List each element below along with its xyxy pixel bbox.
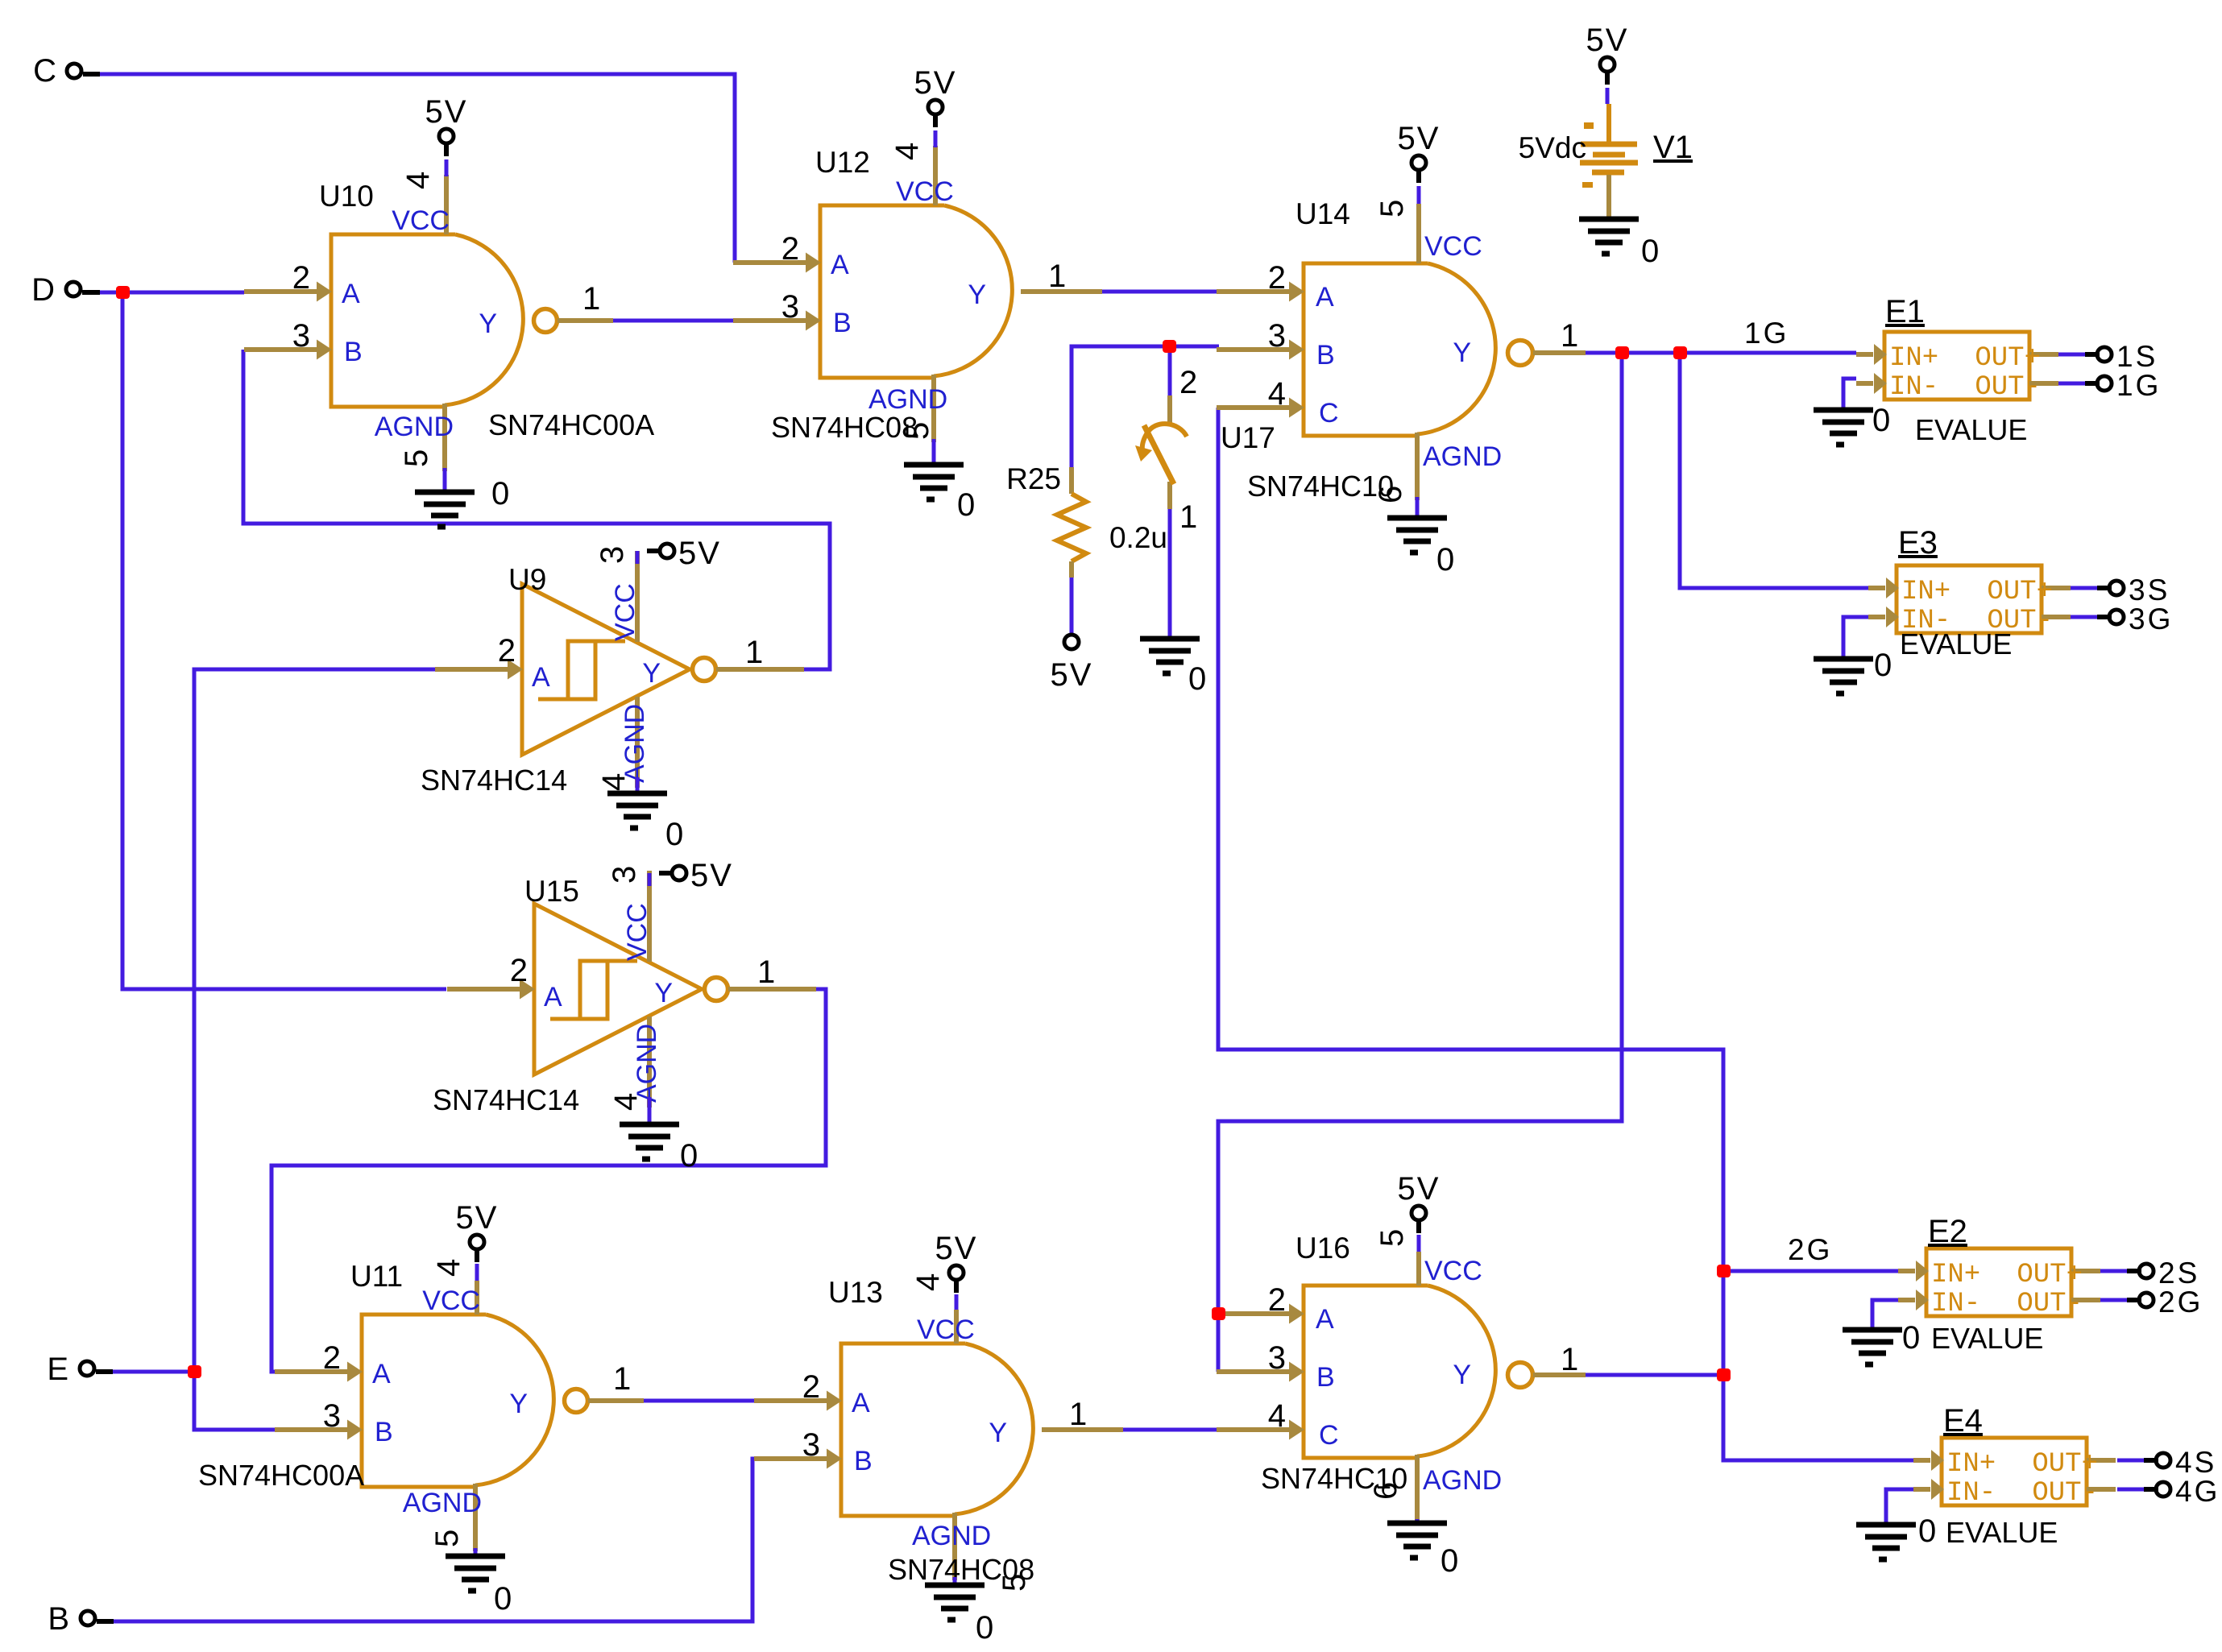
wire U16 Y / U14 pin C feedback bbox=[1218, 408, 1913, 1460]
svg-text:SN74HC08: SN74HC08 bbox=[888, 1553, 1034, 1586]
junction dot (net 2G) bbox=[1717, 1265, 1731, 1277]
svg-text:1: 1 bbox=[757, 954, 775, 990]
terminal 3S bbox=[2097, 573, 2170, 607]
svg-text:C: C bbox=[1319, 398, 1339, 429]
5V power terminal (U13 VCC) bbox=[935, 1231, 978, 1310]
svg-text:IN-: IN- bbox=[1946, 1478, 1996, 1509]
wire E1 OUT+ to 1S bbox=[2058, 353, 2085, 357]
5V power terminal (U16 VCC) bbox=[1398, 1171, 1441, 1252]
pin number 4 (U9.AGND) bbox=[596, 773, 632, 791]
svg-text:SN74HC14: SN74HC14 bbox=[433, 1083, 579, 1116]
svg-text:1: 1 bbox=[745, 635, 763, 670]
pin number 1 (U14.Y) bbox=[1561, 318, 1578, 354]
svg-text:SN74HC10: SN74HC10 bbox=[1261, 1462, 1407, 1495]
pin number 3 (U14.B) bbox=[1268, 318, 1286, 354]
5V power terminal (U14 VCC) bbox=[1398, 121, 1441, 204]
wire U15 Y to U11 pin A bbox=[272, 989, 826, 1372]
svg-text:1S: 1S bbox=[2116, 340, 2158, 373]
svg-text:0: 0 bbox=[1188, 661, 1206, 697]
svg-text:SN74HC14: SN74HC14 bbox=[421, 764, 567, 797]
wire E1 OUT- to 1G bbox=[2058, 382, 2085, 386]
svg-text:3: 3 bbox=[1268, 318, 1286, 354]
pin number 2 (U9.A) bbox=[498, 633, 516, 669]
pin number 2 (U14.A) bbox=[1268, 260, 1286, 296]
svg-text:OUT+: OUT+ bbox=[2032, 1449, 2098, 1480]
part value SN74HC10 (U16) bbox=[1261, 1462, 1407, 1495]
svg-text:1: 1 bbox=[1179, 499, 1197, 535]
battery V1 (5Vdc) bbox=[1580, 104, 1638, 219]
wire U14 Y to U16 pins A,B bbox=[1217, 353, 1622, 1372]
svg-text:IN+: IN+ bbox=[1901, 577, 1950, 607]
pin number 3 (U9.VCC) bbox=[595, 546, 630, 564]
pin number 5 (U12.AGND) bbox=[900, 422, 935, 440]
svg-text:IN+: IN+ bbox=[1889, 343, 1938, 374]
svg-text:1: 1 bbox=[1561, 1342, 1578, 1377]
wire E3 OUT+ to 3S bbox=[2071, 586, 2097, 590]
part value SN74HC14 (U15) bbox=[433, 1083, 579, 1116]
pin number 3 (U13.B) bbox=[802, 1427, 820, 1463]
wire E to junction bbox=[101, 1370, 194, 1374]
junction dot (U14.Y branch 1) bbox=[1615, 346, 1629, 359]
svg-text:A: A bbox=[544, 982, 562, 1012]
reference label U16 bbox=[1295, 1232, 1350, 1265]
part value SN74HC08 (U13) bbox=[888, 1553, 1034, 1586]
svg-text:U17: U17 bbox=[1221, 421, 1275, 454]
controlled source E2 (EVALUE) bbox=[1898, 1248, 2100, 1319]
svg-text:5V: 5V bbox=[456, 1200, 499, 1236]
svg-text:IN-: IN- bbox=[1931, 1289, 1980, 1319]
svg-text:5: 5 bbox=[1374, 1229, 1410, 1247]
wire E3 OUT- to 3G bbox=[2071, 615, 2097, 619]
pin number 2 (U16.A) bbox=[1268, 1282, 1286, 1318]
svg-text:AGND: AGND bbox=[912, 1521, 991, 1551]
ground 0 (E1 IN-) bbox=[1814, 403, 1890, 445]
svg-text:U14: U14 bbox=[1295, 197, 1350, 230]
pin number 1 (U12.Y) bbox=[1048, 259, 1066, 294]
svg-text:IN+: IN+ bbox=[1946, 1449, 1996, 1480]
switch U17 (tClose=0.2u) bbox=[1135, 395, 1187, 509]
pin number 1 (U13.Y) bbox=[1069, 1397, 1087, 1432]
wire R25 to 5V bbox=[1070, 578, 1074, 634]
pin number 1 (U9.Y) bbox=[745, 635, 763, 670]
junction dot (R25/switch/U14.B) bbox=[1163, 340, 1176, 353]
svg-text:VCC: VCC bbox=[610, 583, 640, 641]
svg-text:2G: 2G bbox=[1788, 1233, 1832, 1266]
svg-text:OUT+: OUT+ bbox=[1987, 577, 2053, 607]
svg-text:4S: 4S bbox=[2175, 1446, 2216, 1479]
svg-text:0: 0 bbox=[1874, 648, 1892, 683]
svg-text:C: C bbox=[1319, 1420, 1339, 1451]
wire E4 OUT- to 4G bbox=[2117, 1488, 2144, 1492]
ground 0 (U13 AGND) bbox=[925, 1577, 993, 1646]
svg-text:0: 0 bbox=[957, 487, 975, 523]
svg-text:5V: 5V bbox=[1586, 23, 1629, 58]
svg-text:2: 2 bbox=[323, 1340, 341, 1376]
svg-text:U12: U12 bbox=[815, 146, 870, 179]
part value SN74HC10 (U14) bbox=[1247, 470, 1394, 503]
terminal 1S bbox=[2085, 340, 2158, 373]
svg-text:OUT-: OUT- bbox=[1975, 372, 2041, 403]
svg-text:3: 3 bbox=[781, 289, 799, 325]
svg-text:AGND: AGND bbox=[632, 1024, 662, 1103]
svg-text:2: 2 bbox=[1268, 260, 1286, 296]
svg-text:0: 0 bbox=[1441, 1543, 1458, 1579]
net label 2G bbox=[1788, 1233, 1832, 1266]
reference label U10 bbox=[319, 180, 374, 213]
svg-text:OUT-: OUT- bbox=[2017, 1289, 2083, 1319]
junction dot (E node) bbox=[188, 1365, 201, 1378]
wire E4 OUT+ to 4S bbox=[2117, 1459, 2144, 1463]
svg-text:D: D bbox=[31, 272, 55, 308]
svg-text:0: 0 bbox=[1872, 403, 1890, 438]
svg-text:5V: 5V bbox=[678, 536, 721, 571]
ground 0 (switch U17) bbox=[1140, 639, 1206, 697]
Schmitt inverter U15 (SN74HC14) bbox=[447, 871, 816, 1108]
wire D to U15 pin A bbox=[122, 292, 446, 989]
reference label U13 bbox=[828, 1276, 883, 1309]
svg-text:0: 0 bbox=[494, 1581, 512, 1617]
wire E1 IN- to ground bbox=[1843, 379, 1856, 410]
svg-text:5V: 5V bbox=[1398, 121, 1441, 156]
svg-text:B: B bbox=[833, 308, 852, 338]
junction dot (U16.A) bbox=[1212, 1307, 1225, 1320]
svg-text:2: 2 bbox=[292, 260, 310, 296]
ground 0 (U10 AGND) bbox=[415, 468, 509, 527]
reference label E1 bbox=[1885, 294, 1925, 329]
svg-text:SN74HC00A: SN74HC00A bbox=[198, 1459, 364, 1492]
5V power terminal (U15 VCC) bbox=[649, 858, 733, 893]
svg-text:1: 1 bbox=[1069, 1397, 1087, 1432]
wire U14 Y to E3 IN+ bbox=[1680, 353, 1868, 588]
pin number 6 (U14.AGND) bbox=[1373, 486, 1408, 503]
ground 0 (E2 IN-) bbox=[1843, 1320, 1920, 1364]
svg-text:B: B bbox=[1316, 340, 1335, 371]
svg-text:AGND: AGND bbox=[403, 1488, 482, 1518]
svg-text:EVALUE: EVALUE bbox=[1931, 1322, 2043, 1355]
svg-text:A: A bbox=[532, 662, 550, 693]
pin number 2 (U17) bbox=[1179, 365, 1197, 400]
reference label U9 bbox=[508, 563, 546, 596]
svg-text:3: 3 bbox=[595, 546, 630, 564]
pin number 2 (U15.A) bbox=[510, 953, 528, 988]
svg-text:VCC: VCC bbox=[896, 176, 954, 207]
wire E2 OUT+ to 2S bbox=[2100, 1269, 2127, 1273]
svg-text:0: 0 bbox=[1918, 1513, 1936, 1549]
AND gate U13 (SN74HC08) bbox=[754, 1310, 1123, 1580]
pin number 1 (U17) bbox=[1179, 499, 1197, 535]
5V power terminal (U10 VCC) bbox=[425, 94, 468, 176]
svg-text:Y: Y bbox=[968, 279, 986, 310]
5V power terminal (U12 VCC) bbox=[914, 65, 957, 147]
pin number 1 (U10.Y) bbox=[582, 281, 600, 317]
svg-text:AGND: AGND bbox=[1423, 1465, 1502, 1496]
terminal 4S bbox=[2144, 1446, 2216, 1479]
svg-text:0: 0 bbox=[491, 476, 509, 511]
svg-text:5V: 5V bbox=[935, 1231, 978, 1266]
wire net 2G to E2 IN+ bbox=[1723, 1269, 1898, 1273]
svg-text:A: A bbox=[852, 1388, 870, 1418]
svg-text:U15: U15 bbox=[524, 875, 579, 908]
svg-text:V1: V1 bbox=[1653, 130, 1693, 165]
svg-text:4G: 4G bbox=[2175, 1475, 2220, 1508]
wire E to U11 pin B bbox=[194, 1372, 275, 1430]
NAND gate U16 (SN74HC10) bbox=[1217, 1252, 1586, 1522]
svg-text:0: 0 bbox=[1436, 542, 1454, 578]
svg-text:Y: Y bbox=[642, 658, 661, 689]
svg-text:4: 4 bbox=[910, 1273, 946, 1291]
pin number 4 (U12.VCC) bbox=[889, 143, 925, 160]
svg-text:E4: E4 bbox=[1943, 1403, 1983, 1439]
svg-text:B: B bbox=[48, 1601, 69, 1637]
wire U12 Y to U14 pin A bbox=[1101, 290, 1217, 294]
svg-text:2: 2 bbox=[498, 633, 516, 669]
svg-text:5: 5 bbox=[399, 449, 434, 467]
svg-text:OUT+: OUT+ bbox=[1975, 343, 2041, 374]
pin number 5 (U10.AGND) bbox=[399, 449, 434, 467]
svg-text:3: 3 bbox=[802, 1427, 820, 1463]
pin number 2 (U12.A) bbox=[781, 231, 799, 267]
svg-text:5: 5 bbox=[429, 1530, 465, 1547]
pin number 1 (U16.Y) bbox=[1561, 1342, 1578, 1377]
ground 0 (U9 AGND) bbox=[607, 777, 683, 852]
part value EVALUE (E1) bbox=[1915, 413, 2027, 446]
ground 0 (E4 IN-) bbox=[1856, 1513, 1936, 1559]
NAND gate U11 (SN74HC00A) bbox=[275, 1281, 644, 1551]
svg-text:2G: 2G bbox=[2158, 1286, 2203, 1319]
svg-text:R25: R25 bbox=[1006, 462, 1061, 495]
pin number 4 (U14.C) bbox=[1268, 376, 1286, 412]
wire E to U9 pin A bbox=[194, 669, 435, 1372]
svg-text:AGND: AGND bbox=[375, 412, 454, 442]
svg-text:E: E bbox=[47, 1352, 68, 1387]
svg-text:4: 4 bbox=[1268, 376, 1286, 412]
svg-text:EVALUE: EVALUE bbox=[1946, 1516, 2058, 1549]
ground 0 (U14 AGND) bbox=[1387, 497, 1454, 578]
controlled source E3 (EVALUE) bbox=[1868, 565, 2071, 636]
svg-text:U16: U16 bbox=[1295, 1232, 1350, 1265]
reference label V1 bbox=[1653, 130, 1693, 165]
svg-text:B: B bbox=[375, 1417, 393, 1447]
part value SN74HC00A (U11) bbox=[198, 1459, 364, 1492]
wire C to U12 pin A bbox=[98, 74, 735, 263]
reference label E4 bbox=[1943, 1403, 1983, 1439]
svg-text:1: 1 bbox=[613, 1361, 631, 1397]
svg-text:E2: E2 bbox=[1928, 1214, 1967, 1249]
junction dot (U14.Y branch 2) bbox=[1673, 346, 1687, 359]
svg-text:3: 3 bbox=[323, 1398, 341, 1434]
controlled source E4 (EVALUE) bbox=[1913, 1438, 2116, 1509]
ground 0 (U11 AGND) bbox=[446, 1548, 512, 1617]
pin number 3 (U11.B) bbox=[323, 1398, 341, 1434]
wire switch U17 pin 1 to ground bbox=[1168, 509, 1172, 639]
svg-text:SN74HC08: SN74HC08 bbox=[771, 411, 918, 444]
wire switch U17 pin 2 bbox=[1168, 346, 1172, 395]
svg-text:SN74HC10: SN74HC10 bbox=[1247, 470, 1394, 503]
AND gate U12 (SN74HC08) bbox=[733, 146, 1102, 442]
pin number 4 (U10.VCC) bbox=[400, 172, 436, 189]
wire R25 to U14 pin B bbox=[1072, 346, 1219, 467]
svg-text:3: 3 bbox=[1268, 1340, 1286, 1376]
wire U16 Y output bbox=[1584, 1373, 1723, 1377]
wire D to U10 pin A bbox=[98, 291, 244, 295]
reference label R25 bbox=[1006, 462, 1061, 495]
wire E4 IN- to ground bbox=[1886, 1489, 1913, 1525]
wire E3 IN- to ground bbox=[1843, 617, 1868, 659]
terminal 3G bbox=[2097, 602, 2173, 636]
svg-text:A: A bbox=[372, 1359, 391, 1389]
ground 0 (U12 AGND) bbox=[904, 439, 975, 523]
svg-text:5V: 5V bbox=[690, 858, 733, 893]
svg-text:2S: 2S bbox=[2158, 1257, 2199, 1290]
pin number 2 (U11.A) bbox=[323, 1340, 341, 1376]
part value EVALUE (E4) bbox=[1946, 1516, 2058, 1549]
svg-text:Y: Y bbox=[1453, 1360, 1471, 1390]
port terminal C bbox=[33, 53, 100, 89]
svg-text:3S: 3S bbox=[2129, 573, 2170, 607]
reference label U12 bbox=[815, 146, 870, 179]
svg-text:U9: U9 bbox=[508, 563, 546, 596]
NAND gate U10 (SN74HC00A) bbox=[244, 175, 613, 471]
pin number 5 (U14.VCC) bbox=[1374, 200, 1410, 217]
svg-text:2: 2 bbox=[510, 953, 528, 988]
svg-text:3: 3 bbox=[607, 866, 642, 884]
pin number 3 (U15.VCC) bbox=[607, 866, 642, 884]
pin number 1 (U11.Y) bbox=[613, 1361, 631, 1397]
svg-text:5V: 5V bbox=[425, 94, 468, 130]
terminal 1G bbox=[2085, 369, 2161, 402]
pin number 3 (U16.B) bbox=[1268, 1340, 1286, 1376]
svg-text:0: 0 bbox=[1902, 1320, 1920, 1356]
part value EVALUE (E3) bbox=[1900, 627, 2012, 660]
svg-text:5V: 5V bbox=[1051, 657, 1093, 693]
svg-text:0: 0 bbox=[1641, 234, 1659, 269]
value label 0.2u (U17) bbox=[1109, 521, 1167, 554]
svg-text:A: A bbox=[1316, 282, 1334, 313]
Schmitt inverter U9 (SN74HC14) bbox=[435, 551, 804, 788]
svg-text:IN+: IN+ bbox=[1931, 1260, 1980, 1290]
svg-text:OUT+: OUT+ bbox=[2017, 1260, 2083, 1290]
svg-text:1G: 1G bbox=[1744, 317, 1789, 350]
svg-text:5Vdc: 5Vdc bbox=[1519, 131, 1586, 164]
ground 0 (U16 AGND) bbox=[1387, 1519, 1458, 1579]
wire E2 OUT- to 2G bbox=[2100, 1298, 2127, 1302]
svg-text:1: 1 bbox=[1561, 318, 1578, 354]
svg-text:EVALUE: EVALUE bbox=[1915, 413, 2027, 446]
svg-text:EVALUE: EVALUE bbox=[1900, 627, 2012, 660]
terminal 4G bbox=[2144, 1475, 2220, 1508]
pin number 3 (U10.B) bbox=[292, 318, 310, 354]
svg-text:A: A bbox=[831, 250, 849, 280]
svg-text:Y: Y bbox=[654, 978, 673, 1008]
ground 0 (E3 IN-) bbox=[1814, 648, 1892, 694]
part value SN74HC14 (U9) bbox=[421, 764, 567, 797]
svg-text:0: 0 bbox=[665, 817, 683, 852]
value label 5Vdc (V1) bbox=[1519, 131, 1586, 164]
pin number 5 (U13.AGND) bbox=[997, 1574, 1032, 1592]
junction dot (D node) bbox=[116, 286, 130, 299]
controlled source E1 (EVALUE) bbox=[1856, 332, 2058, 403]
port terminal D bbox=[31, 272, 100, 308]
part value SN74HC00A (U10) bbox=[488, 408, 654, 441]
svg-text:4: 4 bbox=[1268, 1398, 1286, 1434]
svg-text:U13: U13 bbox=[828, 1276, 883, 1309]
svg-text:1G: 1G bbox=[2116, 369, 2161, 402]
svg-text:Y: Y bbox=[989, 1418, 1007, 1448]
wire U9 Y to U10 pin B bbox=[243, 350, 830, 669]
wire U13 Y to U16 pin C bbox=[1123, 1428, 1217, 1432]
svg-text:E1: E1 bbox=[1885, 294, 1925, 329]
svg-text:VCC: VCC bbox=[1424, 231, 1482, 262]
pin number 2 (U10.A) bbox=[292, 260, 310, 296]
svg-text:Y: Y bbox=[479, 308, 497, 339]
svg-text:Y: Y bbox=[509, 1389, 528, 1419]
5V power terminal (V1 +) bbox=[1586, 23, 1629, 104]
pin number 4 (U16.C) bbox=[1268, 1398, 1286, 1434]
reference label U11 bbox=[350, 1260, 403, 1293]
NAND gate U14 (SN74HC10) bbox=[1217, 204, 1586, 500]
svg-text:5: 5 bbox=[1374, 200, 1410, 217]
wire U11 Y to U13 pin A bbox=[642, 1399, 754, 1403]
svg-text:IN-: IN- bbox=[1889, 372, 1938, 403]
part value SN74HC08 (U12) bbox=[771, 411, 918, 444]
svg-text:B: B bbox=[1316, 1362, 1335, 1393]
wire U14 Y to E1 IN+ (net 1G) bbox=[1584, 351, 1856, 355]
port terminal B bbox=[48, 1601, 114, 1637]
wire U10 Y to U12 pin B bbox=[611, 319, 733, 323]
svg-text:VCC: VCC bbox=[392, 205, 450, 236]
reference label U17 bbox=[1221, 421, 1275, 454]
svg-text:B: B bbox=[344, 337, 363, 367]
svg-text:4: 4 bbox=[596, 773, 632, 791]
svg-text:3G: 3G bbox=[2129, 602, 2173, 636]
svg-text:U10: U10 bbox=[319, 180, 374, 213]
wire E2 IN- to ground bbox=[1872, 1300, 1898, 1330]
svg-text:Y: Y bbox=[1453, 337, 1471, 368]
pin number 5 (U11.AGND) bbox=[429, 1530, 465, 1547]
pin number 4 (U11.VCC) bbox=[431, 1259, 466, 1277]
svg-text:AGND: AGND bbox=[1423, 441, 1502, 472]
5V power terminal (U11 VCC) bbox=[456, 1200, 499, 1281]
pin number 1 (U15.Y) bbox=[757, 954, 775, 990]
reference label E3 bbox=[1898, 525, 1938, 561]
terminal 2S bbox=[2127, 1257, 2199, 1290]
junction dot (U16.Y) bbox=[1717, 1368, 1731, 1381]
pin number 4 (U15.AGND) bbox=[608, 1093, 644, 1111]
pin number 4 (U13.VCC) bbox=[910, 1273, 946, 1291]
wire B to U13 pin B bbox=[101, 1459, 754, 1621]
svg-text:U11: U11 bbox=[350, 1260, 403, 1293]
svg-text:4: 4 bbox=[889, 143, 925, 160]
svg-text:E3: E3 bbox=[1898, 525, 1938, 561]
pin number 3 (U12.B) bbox=[781, 289, 799, 325]
svg-text:VCC: VCC bbox=[622, 903, 653, 961]
port terminal E bbox=[47, 1352, 113, 1387]
ground 0 (U15 AGND) bbox=[620, 1097, 698, 1174]
svg-text:A: A bbox=[1316, 1304, 1334, 1335]
svg-text:0.2u: 0.2u bbox=[1109, 521, 1167, 554]
svg-text:C: C bbox=[33, 53, 56, 89]
reference label E2 bbox=[1928, 1214, 1967, 1249]
svg-text:VCC: VCC bbox=[1424, 1256, 1482, 1286]
ground 0 (V1 -) bbox=[1579, 219, 1659, 269]
svg-text:A: A bbox=[342, 279, 360, 309]
svg-text:1: 1 bbox=[1048, 259, 1066, 294]
pin number 6 (U16.AGND) bbox=[1368, 1482, 1403, 1500]
svg-text:5V: 5V bbox=[1398, 1171, 1441, 1207]
net label 1G bbox=[1744, 317, 1789, 350]
svg-text:VCC: VCC bbox=[917, 1315, 975, 1345]
svg-text:2: 2 bbox=[1268, 1282, 1286, 1318]
